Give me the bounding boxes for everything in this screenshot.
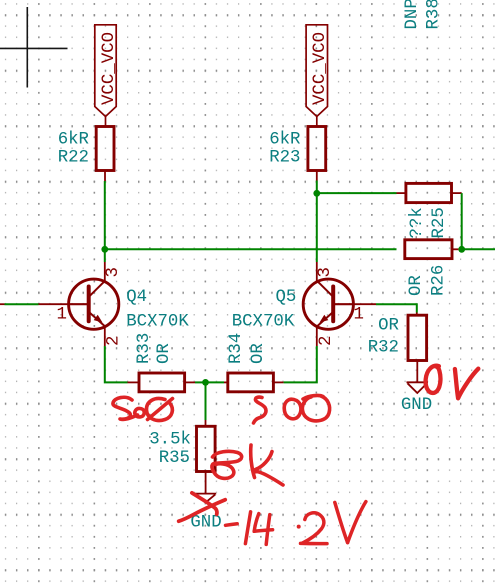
transistor Q4 (69, 279, 119, 329)
resistor R34 (224, 373, 284, 392)
resistor R35 (197, 420, 216, 493)
node A junction (101, 246, 108, 253)
handwriting: X over GND (179, 493, 226, 521)
resistor R32 (408, 313, 427, 383)
svg-text:BCX70K: BCX70K (232, 312, 295, 331)
wire node D to R34 (206, 381, 225, 383)
Q5 base pin stub (pin 1) (353, 303, 376, 305)
svg-text:DNP: DNP (403, 0, 422, 30)
wire Q5 base to R32 (376, 304, 417, 312)
handwriting: 0V annotation (426, 366, 479, 398)
wire to Q4 base from left edge (5, 303, 39, 305)
svg-text:6kR: 6kR (269, 131, 300, 150)
Q4 collector pin stub (pin 3) (104, 262, 106, 281)
origin crosshair (0, 7, 68, 88)
handwriting: 500 annotation right (254, 395, 330, 423)
wire R22 bottom stub (104, 171, 106, 182)
wire R22 to node A (104, 181, 106, 249)
wire node C to right edge (462, 248, 495, 250)
svg-text:R34: R34 (227, 333, 246, 364)
transistor Q5 (mirrored) (303, 279, 353, 329)
Q4 emitter arrow (94, 315, 103, 323)
svg-text:Q5: Q5 (276, 288, 297, 307)
svg-text:1: 1 (354, 306, 364, 325)
svg-text:R23: R23 (269, 149, 300, 168)
svg-text:2: 2 (105, 336, 124, 346)
Q5 emitter pin stub (pin 2) (316, 326, 318, 346)
svg-text:BCX70K: BCX70K (126, 312, 189, 331)
svg-text:R22: R22 (58, 149, 89, 168)
svg-text:3: 3 (316, 267, 335, 277)
wire R25 right down to node C (461, 193, 463, 249)
svg-text:R38: R38 (425, 0, 444, 30)
wire R33 to node D (195, 381, 206, 383)
wire node A down to Q4 collector (104, 249, 106, 262)
svg-text:6kR: 6kR (58, 131, 89, 150)
node B junction (313, 190, 320, 197)
svg-text:??k: ??k (408, 207, 427, 238)
ground symbol GND (bottom) (195, 494, 216, 503)
svg-text:OR: OR (155, 343, 174, 364)
resistor R22 (96, 127, 114, 171)
svg-text:OR: OR (407, 275, 426, 296)
resistor R26 (405, 240, 459, 259)
wire R23 to node B and down to Q5 collector (316, 181, 318, 263)
svg-text:GND: GND (401, 396, 432, 415)
svg-text:R33: R33 (135, 333, 154, 364)
power symbol VCC_VCO (left) (95, 25, 116, 127)
resistor R23 (308, 127, 326, 171)
wire Q4 emitter down to R33 (105, 346, 128, 382)
ground symbol GND (right) (407, 382, 429, 393)
Q5 collector pin stub (pin 3) (316, 262, 318, 281)
svg-text:R32: R32 (368, 339, 399, 358)
handwriting: 8k annotation (212, 445, 283, 485)
power symbol VCC_VCO (right) (306, 25, 327, 127)
wire node D down to R35 (205, 382, 207, 420)
svg-text:Q4: Q4 (126, 288, 147, 307)
handwriting: -14.2V annotation (226, 502, 366, 545)
node C junction (458, 246, 465, 253)
Q5 emitter arrow (320, 315, 329, 323)
node D junction (202, 379, 209, 386)
wire R34 to Q5 emitter (284, 346, 317, 382)
svg-text:3: 3 (104, 267, 123, 277)
resistor R33 (128, 373, 196, 392)
svg-text:2: 2 (317, 336, 336, 346)
svg-text:VCC_VCO: VCC_VCO (100, 32, 119, 105)
wire stub at left edge (0, 303, 5, 305)
Q4 emitter pin stub (pin 2) (104, 326, 106, 346)
resistor R25 (397, 183, 462, 202)
svg-text:OR: OR (249, 343, 268, 364)
svg-text:R26: R26 (430, 265, 449, 296)
svg-text:3.5k: 3.5k (149, 431, 191, 450)
svg-text:OR: OR (378, 317, 399, 336)
svg-text:R25: R25 (430, 207, 449, 238)
wire bus node A to R26 (105, 248, 397, 250)
svg-text:VCC_VCO: VCC_VCO (311, 32, 330, 105)
handwriting: 500 annotation left (113, 397, 173, 420)
wire node B to R25 (317, 192, 397, 194)
svg-text:R35: R35 (159, 449, 190, 468)
Q4 base pin stub (pin 1) (39, 303, 69, 305)
wire R23 bottom stub (316, 171, 318, 181)
svg-text:GND: GND (190, 514, 221, 533)
svg-text:1: 1 (57, 306, 67, 325)
